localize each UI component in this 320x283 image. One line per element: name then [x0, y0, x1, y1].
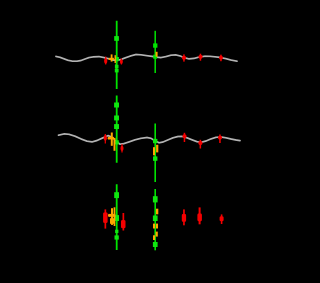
- orange cluster near L1 panel3: [108, 207, 116, 226]
- green line L2 panel3: [154, 189, 156, 250]
- red capsule right panel3: [121, 213, 126, 231]
- green line L1 panel1: [116, 21, 118, 89]
- green line L1 panel2: [116, 96, 118, 163]
- orange cluster near L1 panel2: [108, 133, 116, 151]
- red drop right panel2: [121, 144, 124, 153]
- red error markers bottom right panel3: [182, 207, 224, 225]
- panel 2 spectrum (gray): [59, 134, 241, 144]
- red drop left panel1: [104, 57, 107, 65]
- green squares on L2 panel2: [153, 139, 157, 161]
- green squares on L1 panel2: [114, 103, 119, 145]
- green squares on L2 panel1: [153, 43, 157, 58]
- red circle markers panel2: [183, 133, 223, 149]
- red capsule left panel3: [103, 209, 108, 228]
- red drop left panel2: [104, 134, 107, 144]
- orange bars on L2 panel3: [153, 209, 158, 240]
- green line L1 panel3: [116, 184, 118, 250]
- green line L2 panel1: [154, 31, 156, 73]
- orange bars on L2 panel2: [153, 145, 158, 156]
- panel 1 spectrum (gray): [56, 55, 237, 62]
- orange bar on L2 panel1: [156, 52, 158, 57]
- red drop right panel1: [120, 59, 123, 65]
- green squares on L1 panel3: [114, 192, 119, 239]
- red circle markers panel1: [182, 54, 223, 62]
- orange cluster near L1 panel1: [109, 54, 116, 63]
- green line L2 panel2: [154, 124, 156, 183]
- green squares on L2 panel3: [153, 196, 158, 247]
- orange bar under L1 panel1: [116, 64, 118, 70]
- green squares on L1 panel1: [114, 36, 119, 72]
